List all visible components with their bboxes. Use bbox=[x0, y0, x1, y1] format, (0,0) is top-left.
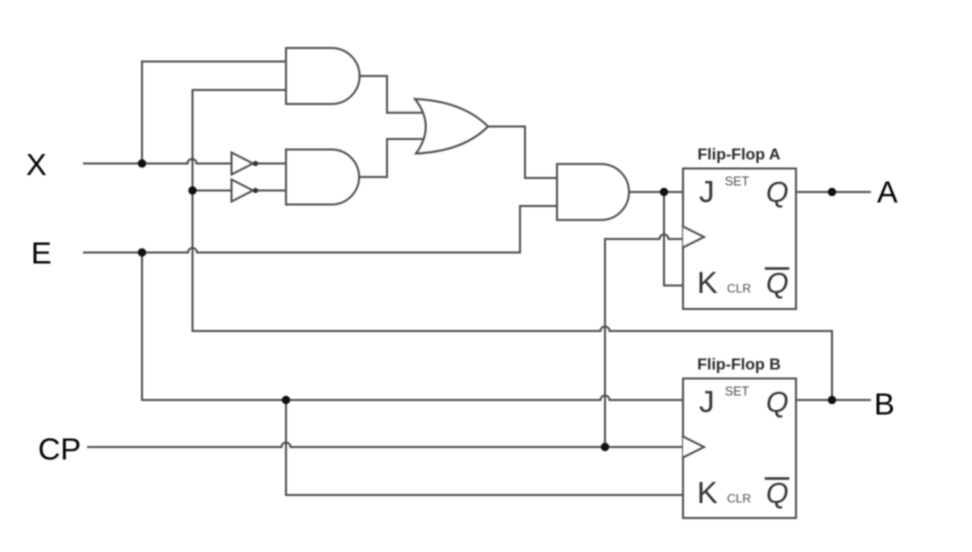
svg-text:J: J bbox=[699, 174, 715, 209]
wire AND1 output to OR bbox=[360, 76, 425, 113]
svg-text:B: B bbox=[874, 387, 895, 422]
flip-flop U2 clock triangle bbox=[683, 437, 704, 458]
inverter N2 bbox=[232, 180, 254, 202]
svg-text:E: E bbox=[31, 236, 52, 271]
wire inverter2 feed bbox=[193, 190, 232, 192]
svg-text:SET: SET bbox=[725, 175, 750, 189]
node on A output bbox=[828, 188, 836, 196]
wire AND2 output to OR bbox=[360, 139, 425, 177]
node on E line bbox=[138, 248, 146, 256]
wire B feedback drop to Q of FFB bbox=[831, 331, 833, 400]
node on B output bbox=[828, 396, 836, 404]
svg-text:K: K bbox=[697, 265, 718, 300]
wire OR output to AND3 bbox=[488, 127, 557, 179]
svg-text:CLR: CLR bbox=[727, 282, 751, 296]
wire X input line bbox=[84, 159, 232, 164]
svg-text:Flip-Flop B: Flip-Flop B bbox=[697, 357, 781, 374]
wire CP input line bbox=[88, 443, 683, 448]
wire FFA Q output to A bbox=[796, 191, 870, 193]
inverter N1 bubble bbox=[253, 161, 258, 166]
svg-text:SET: SET bbox=[725, 385, 750, 399]
node on CP line bbox=[601, 443, 609, 451]
wire K drop of FFB bbox=[286, 400, 683, 495]
OR gate G3 bbox=[415, 99, 488, 154]
inverter N1 bbox=[232, 153, 254, 175]
flip-flop U1 box bbox=[683, 169, 796, 310]
inverter N2 bubble bbox=[253, 188, 258, 193]
svg-text:Q: Q bbox=[766, 268, 789, 300]
wire inverter2 to AND2 bbox=[257, 190, 286, 192]
wire X riser to AND1 bbox=[142, 62, 286, 164]
wire AND3 output to FFA J bbox=[629, 191, 683, 193]
svg-text:Q: Q bbox=[766, 478, 789, 510]
node on FFB J line bbox=[282, 396, 290, 404]
svg-text:Q: Q bbox=[766, 387, 789, 419]
wire E riser down to FFB J bbox=[142, 253, 683, 401]
wire E input line to AND3 bbox=[84, 206, 557, 253]
svg-text:Q: Q bbox=[766, 177, 789, 209]
svg-text:Flip-Flop A: Flip-Flop A bbox=[698, 147, 781, 164]
wire CP riser to FFA clock bbox=[605, 235, 683, 448]
svg-text:J: J bbox=[699, 384, 715, 419]
flip-flop U2 Qbar overline bbox=[766, 477, 788, 480]
wire B feedback riser bbox=[192, 90, 194, 331]
AND gate G4 bbox=[557, 164, 629, 220]
node AND3 output bbox=[660, 188, 668, 196]
AND gate G2 bbox=[286, 150, 359, 205]
flip-flop U2 box bbox=[683, 379, 796, 519]
node on inverter2 feed bbox=[188, 186, 196, 194]
wire inverter1 to AND2 bbox=[257, 163, 286, 165]
wire FFA K feed bbox=[664, 192, 683, 286]
node on X line bbox=[138, 159, 146, 167]
flip-flop U1 clock triangle bbox=[683, 227, 704, 248]
wire AND1 input 2 bbox=[193, 89, 287, 91]
svg-text:X: X bbox=[26, 147, 47, 182]
flip-flop U1 Qbar overline bbox=[766, 267, 788, 270]
svg-text:CP: CP bbox=[38, 432, 81, 467]
AND gate G1 bbox=[286, 48, 360, 104]
wire FFB Q output to B bbox=[796, 399, 870, 401]
svg-text:K: K bbox=[697, 475, 718, 510]
svg-text:A: A bbox=[877, 175, 898, 210]
svg-text:CLR: CLR bbox=[727, 492, 751, 506]
wire B feedback horizontal bbox=[193, 327, 833, 332]
